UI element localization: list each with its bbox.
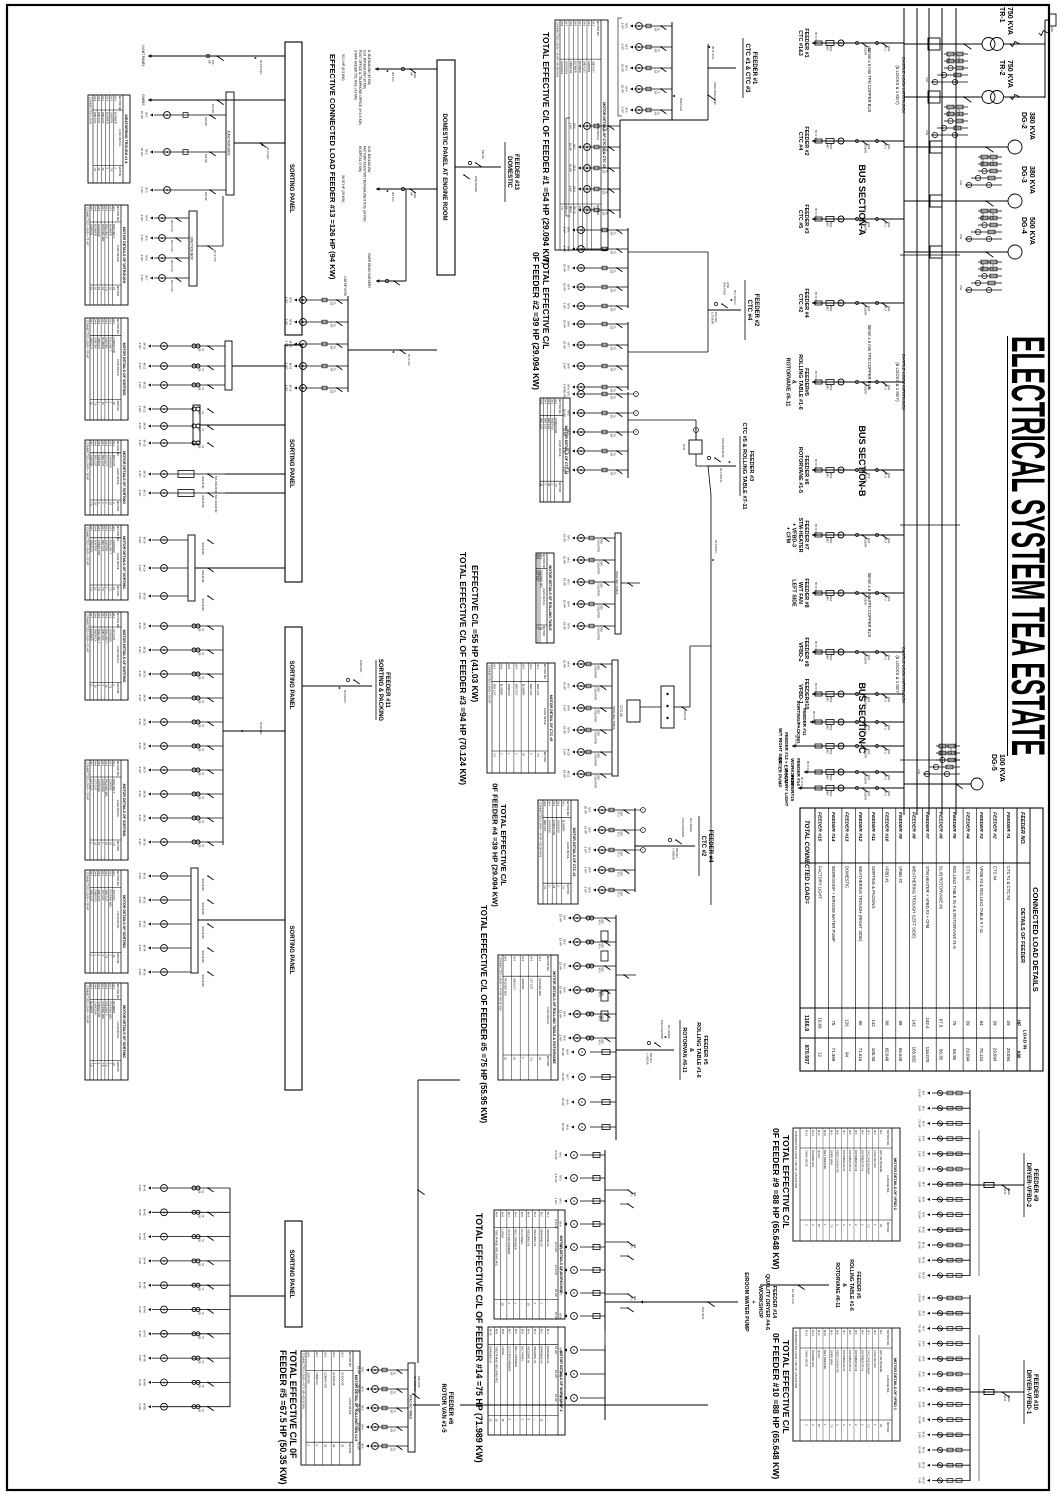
- svg-text:15: 15: [552, 885, 556, 888]
- svg-text:S/F: S/F: [610, 289, 613, 293]
- svg-text:BELL GRINDER: BELL GRINDER: [514, 1346, 518, 1366]
- svg-text:400/5A: 400/5A: [981, 264, 984, 272]
- svg-text:2: 2: [514, 1302, 518, 1304]
- motor details of VFBD 1 table: [793, 1328, 900, 1441]
- title text: [1002, 336, 1055, 756]
- svg-text:S/F: S/F: [610, 389, 613, 393]
- svg-text:FEED CONVEYOR: FEED CONVEYOR: [836, 1350, 840, 1373]
- title underline: [1007, 336, 1009, 756]
- svg-text:75: 75: [952, 1021, 957, 1026]
- svg-text:S/F: S/F: [610, 415, 613, 419]
- svg-text:10: 10: [495, 1419, 499, 1423]
- svg-text:HRC: HRC: [826, 473, 829, 479]
- svg-text:ROLLING TABLE: ROLLING TABLE: [615, 571, 619, 594]
- svg-text:100 KVA: 100 KVA: [417, 1376, 421, 1388]
- svg-text:M-22: M-22: [143, 647, 147, 654]
- svg-text:ISOLATOR: ISOLATOR: [201, 926, 204, 939]
- svg-text:LOAD DETAIL: LOAD DETAIL: [116, 1021, 120, 1039]
- svg-text:SB: SB: [198, 1384, 201, 1388]
- svg-text:MOTOR NO.: MOTOR NO.: [348, 1352, 352, 1368]
- svg-text:7A: 7A: [201, 748, 204, 751]
- svg-text:FEEDER #14: FEEDER #14: [830, 812, 836, 842]
- svg-text:35,1 100mm²: 35,1 100mm²: [689, 818, 692, 832]
- svg-text:SFU: SFU: [617, 892, 620, 897]
- svg-text:QUALITY DRYER #4-6: QUALITY DRYER #4-6: [764, 1274, 770, 1330]
- svg-text:M-9: M-9: [494, 1212, 498, 1217]
- svg-text:M-2: M-2: [332, 1353, 336, 1358]
- svg-text:7A: 7A: [393, 1410, 396, 1413]
- svg-text:M-3: M-3: [867, 1130, 871, 1135]
- bus conductor 3: [928, 8, 930, 815]
- svg-text:2 HP: 2 HP: [138, 471, 142, 478]
- feeder #2 tap: [797, 126, 904, 155]
- svg-text:GHOOGHI: GHOOGHI: [548, 820, 552, 833]
- total effective feeder #5 line text: [479, 905, 488, 1124]
- svg-text:DISTRIBUTOR #4: DISTRIBUTOR #4: [842, 1150, 846, 1172]
- svg-text:MOTOR DETAIL OF CTC #5: MOTOR DETAIL OF CTC #5: [549, 695, 553, 741]
- feeder #12 tap: [778, 728, 904, 764]
- svg-text:SFU: SFU: [617, 832, 620, 837]
- svg-text:100A: 100A: [887, 46, 890, 52]
- svg-text:M-9: M-9: [829, 1330, 833, 1335]
- svg-text:S/F: S/F: [390, 1410, 393, 1414]
- svg-text:FEEDER #12: FEEDER #12: [857, 812, 863, 842]
- svg-text:WEATHERING TROUGH-(RIGHT SIDE): WEATHERING TROUGH-(RIGHT SIDE): [858, 866, 863, 942]
- effective cl feeder #3 text: [470, 565, 480, 702]
- svg-text:M-6: M-6: [573, 123, 577, 128]
- motor detail of rolling table: [535, 553, 554, 643]
- svg-text:CUTTER GRINDER: CUTTER GRINDER: [508, 1346, 512, 1371]
- svg-text:MOTOR NO.: MOTOR NO.: [116, 871, 120, 887]
- svg-text:2 HP: 2 HP: [138, 695, 142, 702]
- svg-text:300A: 300A: [829, 144, 832, 150]
- svg-text:FEEDER #1: FEEDER #1: [1005, 812, 1011, 839]
- svg-text:GHOOGHI: GHOOGHI: [112, 540, 116, 553]
- svg-text:0.5A: 0.5A: [959, 234, 962, 239]
- svg-text:SB: SB: [198, 1312, 201, 1316]
- svg-text:+ CFM: + CFM: [784, 527, 790, 544]
- bar 3 motor M-24: [138, 695, 223, 704]
- svg-text:ISOLATOR: ISOLATOR: [201, 542, 204, 555]
- svg-text:M: M: [580, 1051, 584, 1053]
- svg-text:FEEDER#10: FEEDER#10: [803, 679, 809, 710]
- svg-text:70.124: 70.124: [979, 1048, 984, 1062]
- svg-text:M-7: M-7: [566, 1074, 570, 1079]
- DG-4 metering cluster: [959, 260, 1002, 292]
- svg-text:7A: 7A: [201, 445, 204, 448]
- svg-text:E: E: [839, 592, 843, 594]
- feeder #3 trunk wire: [708, 466, 717, 905]
- svg-text:SORTING & PACKING: SORTING & PACKING: [871, 866, 876, 909]
- svg-text:63A: 63A: [600, 628, 603, 633]
- svg-text:39: 39: [966, 1021, 971, 1026]
- svg-text:7A: 7A: [201, 844, 204, 847]
- svg-text:MOTOR: MOTOR: [116, 953, 120, 963]
- junction box 1 motor M-1: [140, 111, 226, 127]
- rotor van table: [301, 1351, 360, 1465]
- svg-text:S/F: S/F: [654, 28, 657, 32]
- svg-text:+ S/GEAR: + S/GEAR: [672, 848, 675, 860]
- svg-text:S/F: S/F: [390, 1391, 393, 1395]
- svg-text:S/F: S/F: [654, 91, 657, 95]
- svg-text:15 HP: 15 HP: [563, 264, 567, 272]
- svg-text:29.094: 29.094: [1006, 1048, 1011, 1062]
- svg-text:FEEDER #3: FEEDER #3: [978, 812, 984, 839]
- svg-text:M-3: M-3: [521, 957, 525, 962]
- svg-text:SFU: SFU: [884, 473, 887, 478]
- svg-text:M-5: M-5: [922, 1356, 926, 1361]
- svg-text:M-13: M-13: [143, 406, 147, 413]
- rotor van bar: [408, 1363, 415, 1452]
- svg-text:7A: 7A: [613, 415, 616, 418]
- svg-text:ISOLATOR: ISOLATOR: [594, 754, 597, 767]
- svg-text:7A: 7A: [201, 348, 204, 351]
- svg-text:7A: 7A: [201, 1384, 204, 1387]
- DG-5 metering cluster: [917, 744, 960, 776]
- domestic load text 2: [358, 146, 371, 222]
- svg-text:LOAD DETAIL: LOAD DETAIL: [886, 1375, 890, 1393]
- svg-text:M-15: M-15: [143, 440, 147, 447]
- bus section break 2: [900, 524, 960, 526]
- svg-text:15 HP: 15 HP: [563, 600, 567, 608]
- svg-text:0.5A: 0.5A: [959, 180, 962, 185]
- svg-text:LT CT: LT CT: [991, 264, 994, 271]
- bar 4 motor M-45: [138, 1282, 230, 1291]
- svg-text:2 HP: 2 HP: [138, 671, 142, 678]
- svg-text:G.M. BUNGALOW (10 KW): G.M. BUNGALOW (10 KW): [363, 50, 367, 89]
- svg-text:FEEDER #15: FEEDER #15: [816, 812, 822, 842]
- svg-text:300 mm²: 300 mm²: [391, 72, 394, 82]
- svg-text:MOTOR DETAILS OF W/TROUGH: MOTOR DETAILS OF W/TROUGH: [122, 227, 126, 284]
- svg-text:DRIER MAIN: DRIER MAIN: [829, 1350, 833, 1365]
- svg-text:BLOWER: BLOWER: [112, 1002, 116, 1014]
- svg-text:100A S/F: 100A S/F: [683, 710, 686, 721]
- svg-text:SORTER: SORTER: [521, 978, 525, 989]
- svg-text:7A: 7A: [393, 1391, 396, 1394]
- svg-text:7A: 7A: [201, 772, 204, 775]
- svg-text:7.5: 7.5: [560, 206, 564, 210]
- svg-text:M-3: M-3: [559, 1198, 563, 1203]
- svg-text:2: 2: [848, 1424, 852, 1426]
- svg-text:S/F: S/F: [330, 324, 333, 328]
- svg-text:M-2: M-2: [567, 557, 571, 562]
- svg-text:MOTOR DETAILS OF CTC #2: MOTOR DETAILS OF CTC #2: [572, 828, 576, 877]
- svg-text:M-4: M-4: [860, 1330, 864, 1335]
- svg-text:MOTOR: MOTOR: [116, 501, 120, 511]
- DG-2 metering cluster: [959, 155, 1002, 187]
- svg-text:LT CT: LT CT: [957, 109, 960, 116]
- svg-text:FEEDER #2: FEEDER #2: [753, 294, 759, 327]
- svg-text:ROLLING TABLE: ROLLING TABLE: [409, 1395, 413, 1420]
- svg-text:M-3: M-3: [563, 963, 567, 968]
- svg-text:M: M: [572, 1200, 576, 1202]
- svg-text:BELL GRINDER: BELL GRINDER: [514, 1229, 518, 1249]
- svg-text:7A: 7A: [393, 1372, 396, 1375]
- svg-text:CONVEYOR: CONVEYOR: [552, 820, 556, 835]
- feeder #3 subcircuit header: [740, 423, 754, 510]
- bar 3 motor M-29: [138, 815, 223, 824]
- svg-text:16A: 16A: [211, 60, 215, 65]
- svg-text:15: 15: [501, 1302, 505, 1306]
- svg-text:7.5 HP: 7.5 HP: [918, 1324, 922, 1333]
- svg-text:SB: SB: [198, 772, 201, 776]
- svg-text:M-13: M-13: [922, 1477, 926, 1484]
- svg-text:LATHE: LATHE: [501, 1346, 505, 1355]
- svg-text:MOTOR DETAILS OF VFBD 1: MOTOR DETAILS OF VFBD 1: [893, 1358, 897, 1410]
- svg-text:EFFECTIVE C/L =55 HP (41.03: EFFECTIVE C/L =55 HP (41.03 KW): [470, 565, 480, 702]
- feeder #1 group 1 bus: [672, 22, 708, 120]
- svg-text:E: E: [839, 651, 843, 653]
- svg-text:LOAD DETAIL: LOAD DETAIL: [886, 1175, 890, 1193]
- svg-text:750 KVA: 750 KVA: [1006, 7, 1013, 35]
- svg-text:SORTING PANEL: SORTING PANEL: [288, 926, 294, 975]
- svg-text:VFBD #2: VFBD #2: [898, 866, 903, 884]
- svg-text:M-4: M-4: [563, 987, 567, 992]
- svg-text:M-27: M-27: [143, 767, 147, 774]
- bus conductor 4: [916, 8, 918, 815]
- supply breaker squiggle: [1039, 31, 1048, 36]
- svg-text:FEEDER #3: FEEDER #3: [803, 204, 809, 233]
- svg-text:7A: 7A: [657, 28, 660, 31]
- svg-text:7A: 7A: [613, 232, 616, 235]
- svg-text:M-2: M-2: [540, 1329, 544, 1334]
- svg-text:7A: 7A: [613, 389, 616, 392]
- svg-text:2ND CUT: 2ND CUT: [543, 820, 547, 832]
- svg-text:MOTOR NO.: MOTOR NO.: [558, 399, 562, 415]
- svg-text:M-4: M-4: [578, 22, 582, 27]
- svg-text:ROLLING TABLE: ROLLING TABLE: [612, 706, 616, 729]
- svg-text:DETAILS OF FEEDER: DETAILS OF FEEDER: [1019, 908, 1025, 963]
- svg-text:2 HP: 2 HP: [138, 791, 142, 798]
- svg-text:2 HP: 2 HP: [138, 1282, 142, 1289]
- feeder #5 entry wire: [616, 1020, 674, 1065]
- svg-text:COLD AIR FAN: COLD AIR FAN: [873, 1350, 877, 1368]
- svg-text:3RD CUT: 3RD CUT: [536, 684, 540, 696]
- copper bus text A: [867, 48, 872, 113]
- svg-text:63A: 63A: [620, 892, 623, 897]
- motor details table bottom 2b: [85, 440, 128, 515]
- svg-text:S/F: S/F: [390, 1448, 393, 1452]
- svg-text:MOTOR DETAILS OF SORTING: MOTOR DETAILS OF SORTING: [122, 536, 126, 589]
- svg-text:2: 2: [507, 1302, 511, 1304]
- svg-text:15 HP: 15 HP: [561, 1073, 565, 1081]
- junction box 1 motor M-3: [140, 187, 226, 202]
- svg-text:M-10: M-10: [922, 1227, 926, 1234]
- svg-text:MOTOR DETAILS OF WORKSHOP: MOTOR DETAILS OF WORKSHOP: [559, 1236, 563, 1295]
- svg-text:M-2: M-2: [587, 22, 591, 27]
- svg-text:7A: 7A: [605, 170, 608, 173]
- svg-text:M-7: M-7: [842, 1130, 846, 1135]
- jb B motor M-32: [138, 897, 214, 915]
- svg-text:STM-HEATER: STM-HEATER: [797, 518, 803, 553]
- svg-text:M-4: M-4: [922, 1136, 926, 1141]
- bar 3 sub-bus: [223, 626, 285, 845]
- svg-text:M-3: M-3: [324, 1353, 328, 1358]
- svg-text:35,1 50mm²: 35,1 50mm²: [714, 540, 717, 554]
- svg-text:M-1: M-1: [563, 915, 567, 920]
- svg-text:ROLLING TABLE #1-6 & ROTORVANE: ROLLING TABLE #1-6 & ROTORVANE #1-5: [952, 866, 957, 949]
- svg-text:5: 5: [873, 1424, 877, 1426]
- junction box 3 motor M-4: [140, 215, 189, 232]
- svg-text:ROTORVANE #6-11: ROTORVANE #6-11: [834, 1262, 840, 1308]
- svg-text:M-4: M-4: [512, 957, 516, 962]
- svg-text:7A: 7A: [201, 1360, 204, 1363]
- svg-text:LOAD DETAIL: LOAD DETAIL: [116, 553, 120, 571]
- feeder #7 tap: [784, 518, 904, 553]
- svg-text:COLD AIR FAN: COLD AIR FAN: [873, 1150, 877, 1168]
- svg-text:HP: HP: [1017, 1020, 1022, 1026]
- light panel label: [141, 45, 145, 66]
- svg-text:CONNECTED LOAD: CONNECTED LOAD: [89, 97, 93, 124]
- svg-text:M-11: M-11: [289, 363, 293, 370]
- svg-text:G.M. BUNGALOW: G.M. BUNGALOW: [367, 146, 371, 172]
- svg-text:7.5: 7.5: [829, 1224, 833, 1228]
- svg-text:ID FAN: ID FAN: [817, 1150, 821, 1158]
- svg-text:15 HP: 15 HP: [563, 534, 567, 542]
- svg-text:2ND CUT: 2ND CUT: [582, 61, 586, 73]
- svg-text:ISOLATOR: ISOLATOR: [201, 476, 204, 489]
- svg-text:FEEDER #3: FEEDER #3: [748, 451, 754, 481]
- svg-text:29.094: 29.094: [992, 1048, 997, 1062]
- svg-text:2: 2: [548, 885, 552, 887]
- svg-text:63A: 63A: [620, 872, 623, 877]
- svg-text:15 HP: 15 HP: [563, 622, 567, 630]
- svg-text:63A: 63A: [633, 1296, 636, 1301]
- feeder #14 tap: [777, 757, 904, 788]
- svg-text:50A ISOLATOR: 50A ISOLATOR: [214, 476, 217, 494]
- svg-text:M-1: M-1: [536, 665, 540, 670]
- svg-text:35,1 100mm²: 35,1 100mm²: [733, 290, 736, 305]
- svg-text:SFU: SFU: [598, 1040, 601, 1045]
- svg-text:CONNECTED LOAD = 25 HP: CONNECTED LOAD = 25 HP: [86, 985, 90, 1023]
- svg-text:2 HP: 2 HP: [563, 246, 567, 253]
- svg-text:BUS SECTION-B: BUS SECTION-B: [857, 425, 867, 497]
- svg-text:M-5: M-5: [567, 467, 571, 472]
- junction box 3 bar: [189, 211, 197, 286]
- svg-text:M-4: M-4: [567, 284, 571, 289]
- svg-text:M-24: M-24: [143, 695, 147, 702]
- svg-text:S/F: S/F: [602, 170, 605, 174]
- motor details table bottom 6: [85, 983, 128, 1080]
- svg-text:15 HP: 15 HP: [559, 962, 563, 970]
- svg-text:SB: SB: [198, 820, 201, 824]
- svg-text:2 HP: 2 HP: [918, 1166, 922, 1172]
- svg-text:5: 5: [508, 1419, 512, 1421]
- svg-text:M-1: M-1: [625, 23, 629, 28]
- svg-text:75: 75: [831, 1021, 836, 1026]
- junction box 1 feed: [234, 142, 285, 159]
- motor details of VFBD 2 table: [793, 1128, 900, 1241]
- svg-text:100A ISOL: 100A ISOL: [359, 660, 363, 673]
- svg-text:100A ISOLATOR: 100A ISOLATOR: [713, 82, 717, 105]
- svg-text:100A: 100A: [887, 749, 890, 755]
- svg-text:100A: 100A: [867, 538, 870, 544]
- svg-text:10 HP: 10 HP: [918, 1241, 922, 1249]
- svg-text:M-8: M-8: [836, 1130, 840, 1135]
- feeder #2 entry wire: [708, 282, 741, 324]
- svg-text:(5 LOCKS & 1 KEY): (5 LOCKS & 1 KEY): [895, 65, 900, 105]
- svg-text:LT CT: LT CT: [991, 213, 994, 220]
- feeder #8 tap: [791, 578, 904, 607]
- svg-text:2 HP: 2 HP: [584, 867, 588, 874]
- svg-text:10: 10: [540, 1419, 544, 1423]
- svg-text:CONNECTED LOAD = 55 HP: CONNECTED LOAD = 55 HP: [86, 320, 90, 358]
- bus section break 1: [900, 254, 960, 256]
- junction box 1 bar: [226, 92, 234, 195]
- svg-text:S/GEAR: S/GEAR: [864, 725, 867, 735]
- svg-text:M-7: M-7: [508, 1329, 512, 1334]
- svg-text:100A: 100A: [887, 538, 890, 544]
- svg-text:3 HP: 3 HP: [918, 1105, 922, 1111]
- svg-text:&: &: [688, 1048, 694, 1052]
- svg-text:0.5A: 0.5A: [917, 769, 920, 774]
- svg-text:WELDING #2: WELDING #2: [527, 1229, 531, 1246]
- svg-text:16.09: 16.09: [817, 1018, 822, 1030]
- svg-text:MOTOR: MOTOR: [542, 626, 546, 636]
- svg-text:M: M: [580, 1101, 584, 1103]
- DG-3 metering cluster: [959, 209, 1002, 241]
- motor details table bottom 0: [88, 95, 130, 183]
- svg-text:TOTAL EFFECTIVE C/L OF FEEDER: TOTAL EFFECTIVE C/L OF FEEDER #3 =94 HP …: [458, 552, 468, 785]
- svg-text:7A: 7A: [201, 1336, 204, 1339]
- svg-text:E: E: [839, 218, 843, 220]
- svg-text:63A: 63A: [600, 606, 603, 611]
- svg-text:MOTOR: MOTOR: [116, 841, 120, 851]
- svg-text:100A: 100A: [887, 306, 890, 312]
- svg-text:400/5A: 400/5A: [939, 748, 942, 756]
- svg-text:100A: 100A: [867, 473, 870, 479]
- svg-text:FEEDER #5: FEEDER #5: [951, 812, 957, 839]
- svg-text:7A: 7A: [613, 308, 616, 311]
- svg-text:M-1: M-1: [567, 227, 571, 232]
- svg-text:M: M: [572, 1154, 576, 1156]
- svg-text:300A: 300A: [829, 749, 832, 755]
- svg-text:M-12: M-12: [811, 1130, 815, 1136]
- svg-text:BLOWER: BLOWER: [522, 684, 526, 696]
- svg-text:2 HP: 2 HP: [138, 1233, 142, 1240]
- svg-text:2 HP: 2 HP: [138, 565, 142, 572]
- svg-text:TR-2: TR-2: [998, 60, 1005, 76]
- feeder #4 motors: [584, 806, 635, 897]
- jb 2A motor M-11: [138, 363, 225, 372]
- svg-text:300 mm²: 300 mm²: [391, 192, 394, 202]
- svg-text:M: M: [572, 1397, 576, 1399]
- svg-text:M-1: M-1: [567, 391, 571, 396]
- svg-text:ISOLATOR: ISOLATOR: [201, 570, 204, 583]
- feeder #1 group 2 motors: [566, 118, 620, 216]
- svg-text:WELDING #1: WELDING #1: [533, 1346, 537, 1363]
- svg-text:TOTAL EFFECTIVE C/L OF FEEDER: TOTAL EFFECTIVE C/L OF FEEDER #5 =75 HP …: [479, 905, 488, 1124]
- svg-text:100A: 100A: [867, 596, 870, 602]
- svg-text:CTC #6: CTC #6: [619, 706, 623, 717]
- svg-text:CONNECTED LOAD = 88 HP +65.64: CONNECTED LOAD = 88 HP +65.648 KW: [794, 1131, 798, 1188]
- svg-text:FEEDER #7: FEEDER #7: [803, 520, 809, 549]
- svg-text:CTC #2: CTC #2: [700, 836, 706, 857]
- svg-text:7A: 7A: [613, 396, 616, 399]
- feeder #2 group 2 bus: [628, 310, 708, 390]
- svg-text:CONNECTED LOAD = 55 HP: CONNECTED LOAD = 55 HP: [488, 665, 492, 703]
- svg-text:2: 2: [500, 753, 504, 755]
- svg-text:M-35: M-35: [143, 969, 147, 976]
- svg-text:7A: 7A: [657, 112, 660, 115]
- svg-text:E1,100 mm²: E1,100 mm²: [791, 1289, 795, 1304]
- svg-text:M-13: M-13: [805, 1130, 809, 1136]
- svg-text:M-1: M-1: [561, 802, 565, 807]
- svg-text:S/GEAR: S/GEAR: [864, 538, 867, 548]
- svg-text:2: 2: [805, 1224, 809, 1226]
- domestic load text 1: [354, 50, 372, 125]
- svg-text:SORTING PANEL: SORTING PANEL: [288, 439, 294, 488]
